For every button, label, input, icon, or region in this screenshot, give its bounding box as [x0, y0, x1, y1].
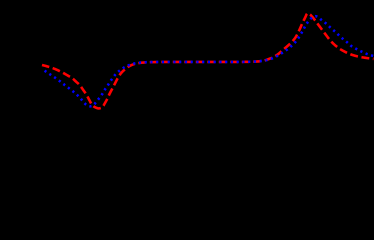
- chart: dispersion-style two-curve plot on black background: [0, 0, 374, 148]
- red dashed curve: [42, 13, 374, 108]
- blue dotted curve: [42, 16, 374, 106]
